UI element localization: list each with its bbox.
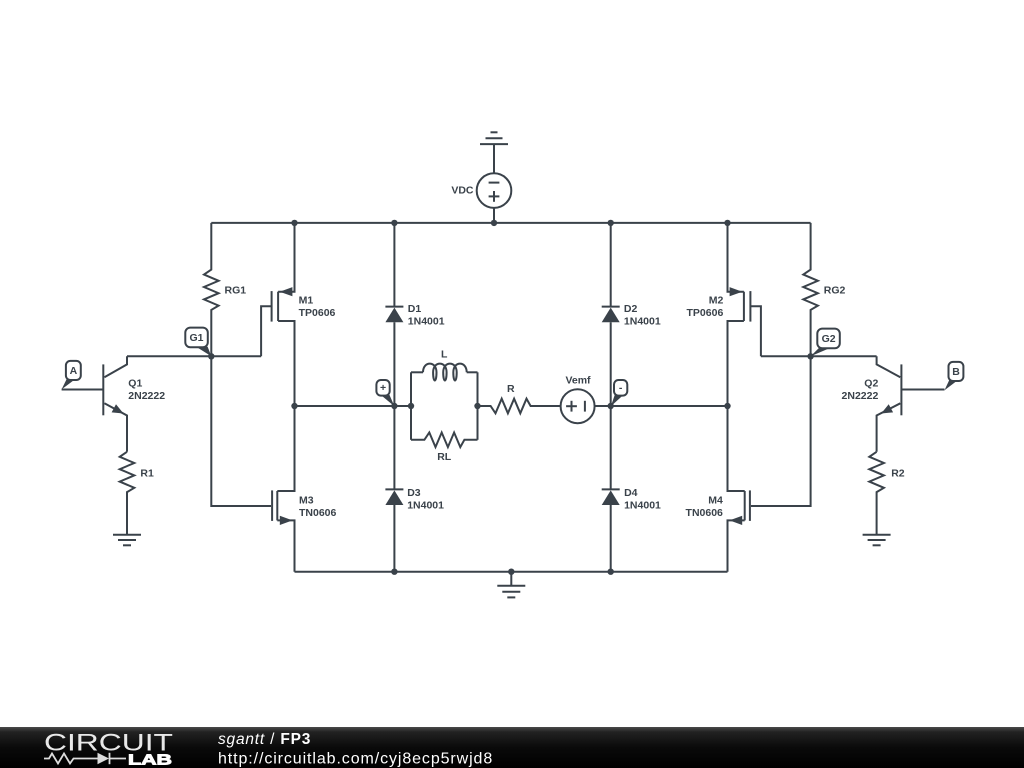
svg-text:M1: M1: [299, 295, 314, 307]
node dot ground/bottom: [508, 569, 514, 575]
terminal B: [945, 362, 964, 390]
diode D3 (1N4001): [385, 406, 444, 572]
footer bar: [0, 727, 1024, 768]
terminal G1: [185, 328, 211, 357]
node dot D4/bottom: [608, 569, 614, 575]
transistor Q2 (NPN 2N2222): [842, 356, 945, 452]
svg-text:Q1: Q1: [128, 378, 142, 390]
wire G1 down to M3 gate: [211, 356, 271, 506]
voltage source VDC: [451, 173, 511, 208]
node dot mid/D2D4: [608, 403, 614, 409]
wire top rail: [211, 222, 810, 224]
svg-text:1N4001: 1N4001: [407, 499, 444, 511]
transistor Q1 (NPN 2N2222): [62, 356, 166, 452]
svg-text:TP0606: TP0606: [299, 307, 336, 319]
svg-text:D1: D1: [408, 303, 422, 315]
svg-text:Q2: Q2: [864, 378, 878, 390]
resistor RG1: [204, 223, 246, 356]
wire mid rail left: [295, 405, 412, 407]
terminal -: [611, 380, 627, 406]
transistor M2 (PMOS TP0606): [687, 223, 761, 406]
node dot M2/rail: [724, 220, 730, 226]
ground (flipped, above VDC): [480, 132, 508, 173]
svg-text:2N2222: 2N2222: [842, 390, 879, 402]
ground (bottom center): [497, 572, 525, 598]
node G2: [807, 353, 813, 359]
ground (Q1): [113, 535, 141, 546]
svg-text:R2: R2: [891, 467, 905, 479]
svg-text:G2: G2: [822, 333, 836, 345]
svg-text:http://circuitlab.com/cyj8ecp5: http://circuitlab.com/cyj8ecp5rwjd8: [218, 751, 493, 768]
wire G1 horizontal: [127, 355, 261, 357]
svg-text:A: A: [70, 365, 78, 377]
resistor RG2: [803, 223, 845, 356]
inductor L + resistor RL parallel box: [411, 348, 478, 463]
svg-text:LAB: LAB: [128, 752, 172, 768]
voltage source Vemf: [561, 375, 595, 424]
svg-text:+: +: [380, 382, 386, 394]
transistor M4 (NMOS TN0606): [686, 406, 750, 572]
svg-text:TN0606: TN0606: [686, 507, 724, 519]
svg-text:L: L: [441, 348, 448, 360]
node dot L-left: [408, 403, 414, 409]
svg-text:TN0606: TN0606: [299, 507, 337, 519]
svg-text:RG2: RG2: [824, 284, 846, 296]
terminal G2: [811, 329, 840, 357]
node dot VDC/rail: [491, 220, 497, 226]
diode D1 (1N4001): [385, 223, 444, 406]
wire Vemf to D2 column: [595, 405, 728, 407]
svg-text:2N2222: 2N2222: [128, 390, 165, 402]
node G1: [208, 353, 214, 359]
wire G2 down to M4 gate: [751, 356, 811, 506]
svg-text:B: B: [952, 366, 960, 378]
wire bottom rail: [295, 571, 728, 573]
svg-text:D4: D4: [624, 487, 638, 499]
resistor R1: [120, 452, 154, 535]
node dot M1/rail: [291, 220, 297, 226]
svg-text:sgantt / FP3: sgantt / FP3: [218, 731, 311, 748]
svg-text:1N4001: 1N4001: [624, 316, 661, 328]
svg-text:Vemf: Vemf: [565, 375, 591, 387]
terminal +: [376, 380, 394, 406]
svg-text:-: -: [619, 382, 623, 394]
logo resistor-diode mark: [44, 753, 126, 764]
svg-text:M4: M4: [708, 494, 723, 506]
svg-text:RG1: RG1: [225, 284, 247, 296]
svg-text:TP0606: TP0606: [687, 307, 724, 319]
wire G2 horizontal: [761, 355, 877, 357]
node dot L-right: [474, 403, 480, 409]
node dot mid/D1D3: [391, 403, 397, 409]
svg-text:RL: RL: [437, 451, 452, 463]
svg-text:D3: D3: [407, 487, 421, 499]
resistor R: [478, 383, 561, 413]
terminal A: [62, 361, 81, 390]
node dot D3/bottom: [391, 569, 397, 575]
wire VDC to rail: [493, 208, 495, 223]
svg-text:M3: M3: [299, 494, 314, 506]
svg-text:R1: R1: [140, 467, 154, 479]
node dot D2/rail: [608, 220, 614, 226]
ground (Q2): [863, 535, 891, 546]
svg-text:VDC: VDC: [451, 185, 474, 197]
svg-text:D2: D2: [624, 303, 638, 315]
svg-text:1N4001: 1N4001: [624, 499, 661, 511]
svg-text:G1: G1: [189, 332, 203, 344]
diode D2 (1N4001): [602, 223, 661, 406]
svg-text:M2: M2: [709, 295, 724, 307]
resistor R2: [869, 452, 904, 535]
node dot mid/M2M4: [724, 403, 730, 409]
svg-text:1N4001: 1N4001: [408, 316, 445, 328]
diode D4 (1N4001): [602, 406, 661, 572]
transistor M3 (NMOS TN0606): [272, 406, 336, 572]
node dot mid/M1M3: [291, 403, 297, 409]
svg-text:R: R: [507, 383, 515, 395]
node dot D1/rail: [391, 220, 397, 226]
transistor M1 (PMOS TP0606): [261, 223, 335, 406]
